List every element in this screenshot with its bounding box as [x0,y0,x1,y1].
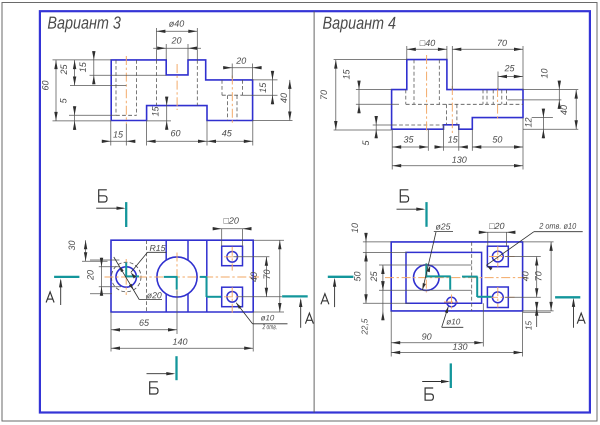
V4 B-B top arrow and letter [397,208,424,210]
V4 dim 70 left [334,59,407,61]
svg-text:2 отв.: 2 отв. [262,322,277,331]
svg-text:130: 130 [452,342,467,352]
svg-text:50: 50 [492,134,502,144]
V4 plan dim 15 right bottom [523,311,551,313]
V3 plan step edge hidden [146,240,148,312]
V3 dim 15 mid step [147,120,171,122]
V4 front hidden d10 hole [446,104,448,125]
svg-text:130: 130 [452,155,467,165]
V3 plan right squares d10 holes [222,246,243,266]
V3 dim d40 top [155,28,157,60]
V3 plan centerlines [105,276,260,278]
V3 B-B top arrow and letter [96,207,123,209]
V3 plan slot edges [165,240,167,260]
V3 plan ext big circle below [176,291,178,335]
svg-text:45: 45 [222,128,233,138]
svg-text:15: 15 [78,61,88,72]
svg-text:15: 15 [258,82,268,93]
svg-text:70: 70 [497,38,507,48]
V4 front centerlines [426,55,428,133]
V3 dim 5 left [69,114,116,116]
V3 front centerlines [125,56,127,124]
V3 plan leader d10 2 holes [236,303,252,324]
svg-text:ø10: ø10 [446,317,461,326]
V4 front hidden bottom line [393,124,444,126]
V3 B-B bottom arrow and letter [147,373,174,375]
V4 plan circle d10 [447,297,457,307]
V3 plan dim sq20 top [221,229,223,246]
V4 plan dim 50 left [363,302,410,304]
V3 plan dim 140 bottom [252,312,254,352]
svg-text:15: 15 [448,134,459,144]
svg-text:70: 70 [262,269,272,279]
central divider [313,11,315,412]
V3 dim 60 left [53,59,112,61]
V3 A-A left arrow and letter [60,280,62,305]
svg-text:70: 70 [319,90,329,100]
V3 A-A right arrow and letter [300,300,302,328]
V4 dim 25 right top [497,72,499,90]
svg-text:40: 40 [279,93,289,103]
V3 dim 40 right [253,120,293,122]
V3 dim 15 right depth [253,79,278,81]
V4 plan dim 25 left [379,264,472,266]
V3 dim 20 notch [165,44,167,60]
svg-text:40: 40 [249,272,259,282]
V3 plan dashed circle R15 [111,262,141,292]
V4 plan outline [391,242,522,311]
V3 dim 20 right pocket [231,64,233,79]
svg-text:60: 60 [170,128,180,138]
V3 plan dim 30 left [82,260,108,262]
V4 A-A right arrow and letter [573,300,575,328]
svg-text:90: 90 [422,332,432,342]
V3 plan dim 40 right [233,256,269,258]
V4 dim 5 left [373,124,393,126]
V4 plan centerlines [385,277,528,279]
svg-text:□20: □20 [223,216,238,226]
svg-text:20: 20 [86,270,96,281]
svg-text:70: 70 [534,271,544,281]
svg-text:□20: □20 [489,221,504,231]
V4 plan right squares [487,246,508,267]
V4 plan dim 10 left [363,241,391,243]
V3 plan leader d20 diameter [114,257,139,300]
V4 section B-B line [425,202,427,227]
svg-text:35: 35 [403,134,414,144]
svg-text:30: 30 [67,240,77,250]
svg-text:65: 65 [139,318,150,328]
V3 front view outline [111,60,252,121]
svg-text:5: 5 [59,97,69,103]
V3 section A-A line [54,276,79,278]
svg-text:40: 40 [521,271,531,281]
svg-text:25: 25 [59,64,69,76]
V4 front view outline [392,60,523,130]
V3 plan leader R15 [148,251,167,253]
V4 plan dim 70 right [523,241,554,243]
V4 front hidden d25 hole [413,60,415,105]
V4 dim 70 top [451,46,453,90]
svg-text:60: 60 [41,80,51,90]
V4 plan dim 22.5 left [382,281,384,320]
svg-text:ø20: ø20 [147,290,162,300]
svg-text:Вариант 4: Вариант 4 [322,13,396,33]
V3 plan outline [111,240,253,312]
svg-text:10: 10 [540,68,550,78]
V4 plan dim 130 bottom [522,311,524,357]
svg-text:15: 15 [113,129,124,139]
V4 plan leader 2 holes d10 [486,232,534,266]
V3 front hidden pocket right [221,80,223,95]
V4 dim 40 right [523,128,578,130]
svg-text:25: 25 [369,271,379,283]
svg-text:ø25: ø25 [436,221,451,231]
svg-text:25: 25 [503,63,515,73]
svg-text:2 отв. ø10: 2 отв. ø10 [538,222,576,231]
svg-text:5: 5 [361,140,371,146]
V3 front hidden hole left [115,60,117,115]
V4 plan pocket [406,252,482,303]
V4 plan dim sq20 top [487,232,489,246]
V3 plan dim 70 right [254,239,285,241]
svg-text:20: 20 [235,56,246,66]
svg-text:40: 40 [559,105,569,115]
V4 dim 15 left [356,89,392,91]
V3 plan dim 20 left [90,259,119,261]
V4 section A-A line [328,276,354,278]
V4 plan circle d25 [414,265,440,291]
V4 B-B bottom arrow and letter [422,381,448,383]
svg-text:□40: □40 [420,38,435,48]
svg-text:15: 15 [525,321,534,331]
svg-text:R15: R15 [150,243,166,253]
svg-text:140: 140 [172,337,187,347]
V4 A-A left arrow and letter [334,280,336,308]
V4 bottom dim 130 [392,165,523,167]
svg-text:12: 12 [524,117,534,127]
V4 dim 12 right [532,117,553,119]
svg-text:ø40: ø40 [169,19,185,29]
V3 bottom dims 15 60 45 [110,121,112,146]
V4 plan dim 40 right [505,256,541,258]
V4 dim 10 right [507,99,561,101]
V4 plan hidden mid line [471,242,473,311]
V4 plan leader d10 [442,307,449,328]
V4 bottom dims 35 15 50 [391,129,393,169]
V3 dim 15 notch depth [90,74,167,76]
V4 dim sq40 top [406,46,408,60]
V3 front hidden hole right d10 [227,95,229,120]
svg-text:50: 50 [353,271,363,281]
V3 plan step edge solid [206,240,208,312]
V3 plan dim 65 bottom [110,312,112,352]
svg-text:ø10: ø10 [261,313,275,322]
V3 dim 25 left [70,85,126,87]
V3 plan big circle d40 [157,257,197,297]
V3 plan left hole d20 [116,267,136,287]
V4 plan leader d25 diameter [423,232,437,290]
svg-text:22,5: 22,5 [361,318,370,335]
svg-text:Вариант 3: Вариант 3 [47,13,121,33]
svg-text:20: 20 [170,35,181,45]
svg-text:15: 15 [151,106,161,117]
svg-text:10: 10 [350,223,360,233]
svg-text:15: 15 [342,69,352,80]
V3 front hidden hole mid d40 [155,60,157,106]
V3 section B-B line [125,202,127,227]
V4 plan dim 90 bottom [390,311,392,357]
V4 front hidden pocket lines [405,90,407,105]
